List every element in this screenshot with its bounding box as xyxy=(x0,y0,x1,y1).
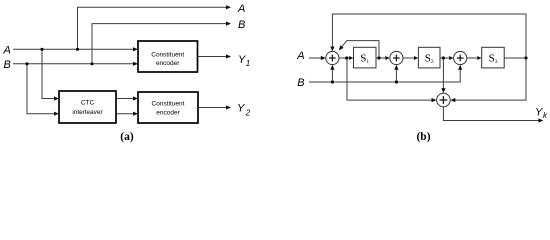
svg-text:Y: Y xyxy=(238,54,246,66)
svg-text:B: B xyxy=(238,19,245,31)
svg-text:2: 2 xyxy=(245,109,251,118)
svg-text:1: 1 xyxy=(246,59,250,68)
svg-text:Y: Y xyxy=(535,107,543,119)
svg-text:(a): (a) xyxy=(120,131,134,143)
svg-text:k: k xyxy=(543,111,548,120)
svg-text:A: A xyxy=(237,3,245,15)
svg-text:Y: Y xyxy=(237,103,245,115)
svg-text:(b): (b) xyxy=(416,131,430,143)
svg-text:Constituent: Constituent xyxy=(151,51,184,58)
svg-text:A: A xyxy=(296,50,304,62)
svg-text:interleaver: interleaver xyxy=(72,109,103,116)
svg-text:A: A xyxy=(3,44,11,56)
svg-text:B: B xyxy=(4,59,11,71)
svg-text:CTC: CTC xyxy=(81,99,95,106)
svg-text:encoder: encoder xyxy=(156,109,180,116)
svg-text:B: B xyxy=(297,77,304,89)
svg-text:Constituent: Constituent xyxy=(152,101,185,108)
svg-text:encoder: encoder xyxy=(156,60,180,67)
